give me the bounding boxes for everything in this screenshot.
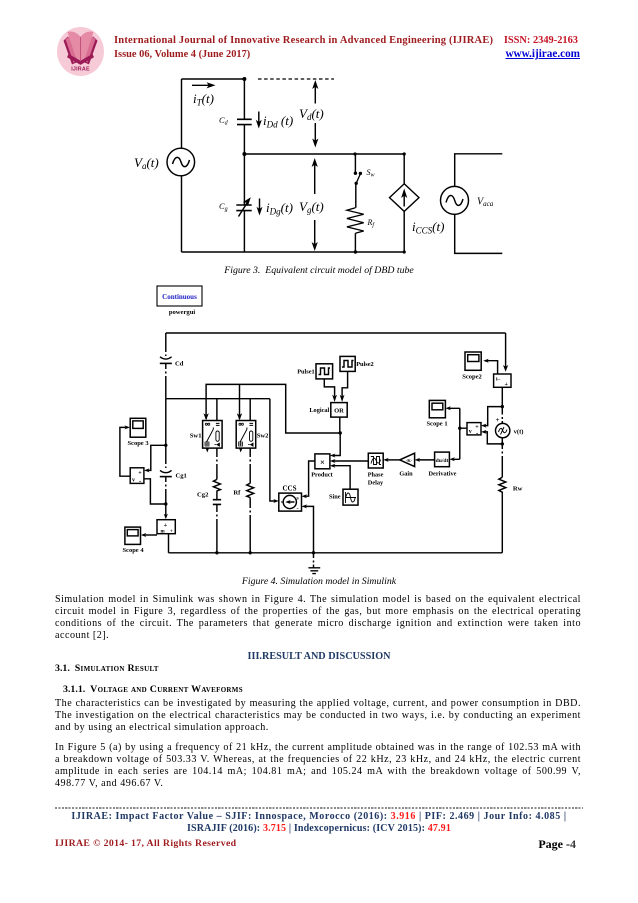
- svg-text:Sw1: Sw1: [190, 433, 202, 440]
- branch resistor Rf: [249, 448, 251, 483]
- svg-text:Phase: Phase: [368, 472, 384, 479]
- svg-text:Derivative: Derivative: [429, 471, 457, 478]
- wire branch feed y398: [166, 398, 270, 400]
- svg-text:Rw: Rw: [513, 486, 523, 493]
- capacitor Cd: [165, 333, 167, 356]
- svg-text:v: v: [132, 478, 135, 484]
- sine block: [343, 489, 358, 505]
- wire top bus: [166, 332, 506, 334]
- derivative block: [435, 452, 450, 467]
- svg-text:OR: OR: [334, 408, 344, 415]
- capacitor Cg1: [160, 470, 172, 472]
- arrow iDd: [258, 112, 260, 124]
- wire sum bottom to bus: [168, 534, 170, 553]
- svg-text:-K-: -K-: [406, 458, 413, 463]
- caption figure 4: [0, 576, 638, 587]
- svg-text:Cg2: Cg2: [197, 492, 209, 499]
- svg-text:Rf: Rf: [233, 490, 241, 497]
- svg-text:Pulse1: Pulse1: [297, 369, 315, 376]
- caption figure 3: [0, 265, 638, 276]
- node top junction: [242, 77, 246, 81]
- svg-text:Delay: Delay: [368, 480, 384, 487]
- svg-text:s: s: [297, 496, 299, 502]
- svg-text:CCS: CCS: [282, 485, 296, 493]
- wire sum to Scope4: [145, 534, 158, 536]
- sum block Add1: [165, 513, 167, 516]
- capacitor Cd: [243, 79, 245, 154]
- wire middle: [244, 153, 404, 155]
- wire Pulse1 to OR: [324, 379, 334, 397]
- scope Scope3: [130, 418, 146, 437]
- wire imeas to scope2: [486, 361, 498, 374]
- wire OR out: [333, 417, 341, 455]
- wire voltmeter out to Scope3: [120, 427, 130, 476]
- scope Scope2: [465, 352, 481, 370]
- resistor Rf: [347, 208, 364, 233]
- product block: [315, 454, 330, 469]
- scope Scope1: [429, 400, 445, 417]
- wire CCS minus to bus: [305, 506, 314, 552]
- gain block: [400, 453, 415, 466]
- svg-text:Scope 4: Scope 4: [122, 547, 144, 554]
- scope Scope4: [125, 527, 141, 544]
- svg-text:Sw2: Sw2: [257, 433, 269, 440]
- wire gain to phase delay: [386, 459, 400, 461]
- wire control y384: [206, 384, 340, 433]
- wire main right vertical: [501, 387, 503, 423]
- wire voltmeter minus: [144, 479, 166, 504]
- wire left vertical: [181, 79, 183, 252]
- pulse generator Pulse1: [316, 364, 333, 379]
- paragraph 2: [55, 698, 581, 734]
- svg-text:v: v: [469, 429, 472, 435]
- wire v2 to scope1/derivative: [448, 408, 467, 459]
- svg-text:Continuous: Continuous: [162, 293, 197, 301]
- svg-text:Cd: Cd: [175, 361, 184, 368]
- paragraph 1: [55, 594, 581, 642]
- source Vaca: [441, 186, 469, 214]
- wire derivative to gain: [417, 459, 434, 461]
- svg-text:v(t): v(t): [514, 429, 524, 436]
- voltage measurement V1: [130, 468, 144, 484]
- arrow iT: [192, 84, 211, 86]
- breaker Sw1: [203, 421, 223, 449]
- current measurement block: [505, 333, 507, 369]
- wire Pulse2 to OR: [342, 371, 348, 396]
- capacitor Cg (variable): [243, 154, 245, 252]
- svg-text:+: +: [496, 416, 500, 424]
- paragraph 3: [55, 742, 581, 790]
- pulse generator Pulse2: [340, 356, 355, 371]
- svg-text:Scope 3: Scope 3: [127, 440, 149, 447]
- svg-text:powergui: powergui: [169, 309, 196, 316]
- svg-text:Product: Product: [311, 472, 333, 479]
- svg-text:Scope2: Scope2: [462, 374, 482, 381]
- arrow Vd (double): [314, 85, 316, 144]
- wire v2 minus bracket: [485, 432, 503, 444]
- svg-text:Scope 1: Scope 1: [426, 421, 447, 428]
- wire bottom: [182, 251, 405, 253]
- voltage measurement v2: [467, 423, 481, 435]
- svg-text:+: +: [138, 471, 142, 477]
- svg-text:Logical: Logical: [309, 407, 329, 414]
- controlled current source CCS: [279, 493, 302, 511]
- svg-text:Pulse2: Pulse2: [356, 361, 374, 368]
- branch Cg2 (R + C series): [216, 448, 218, 479]
- heading: [0, 651, 638, 662]
- phase delay block: [368, 453, 383, 468]
- right loop wires: [455, 154, 503, 254]
- header logo: [56, 26, 105, 78]
- switch Sw: [354, 154, 356, 172]
- wire v2 plus bracket: [485, 407, 503, 426]
- node junction left: [164, 444, 167, 447]
- source Va: [167, 148, 195, 176]
- ground: [313, 553, 315, 568]
- current source CCS diamond: [403, 154, 405, 252]
- wire bottom bus: [169, 552, 503, 554]
- logical OR block: [331, 403, 347, 418]
- resistor Rw: [499, 477, 506, 494]
- wire top: [182, 78, 245, 80]
- wire to voltmeter plus: [148, 445, 166, 470]
- svg-text:Gain: Gain: [399, 471, 413, 478]
- arrow iDg: [259, 199, 261, 211]
- header text: [114, 35, 584, 46]
- svg-text:+: +: [164, 522, 168, 529]
- svg-text:Cg1: Cg1: [176, 473, 187, 480]
- arrow Vg (double): [314, 163, 316, 247]
- wire below source: [501, 438, 503, 478]
- wire left main vertical: [165, 399, 167, 468]
- svg-text:i–: i–: [496, 377, 501, 383]
- wire product out to CCS s: [305, 461, 315, 496]
- svg-text:+: +: [170, 530, 173, 535]
- svg-text:×: ×: [320, 457, 325, 467]
- svg-text:-: -: [297, 505, 299, 512]
- powergui block (Continuous): [157, 286, 202, 306]
- svg-text:+: +: [505, 382, 509, 388]
- breaker Sw2: [236, 421, 256, 449]
- wire sine to product: [333, 466, 350, 490]
- svg-text:Sine: Sine: [329, 494, 341, 501]
- Sw bottom out arrows: [207, 448, 240, 450]
- svg-text:du/dt: du/dt: [436, 458, 449, 464]
- wire phase delay to product: [333, 460, 369, 462]
- FIG3 SVG placeholder: [0, 0, 638, 330]
- dashed node line: [258, 78, 334, 80]
- footer: [55, 807, 583, 809]
